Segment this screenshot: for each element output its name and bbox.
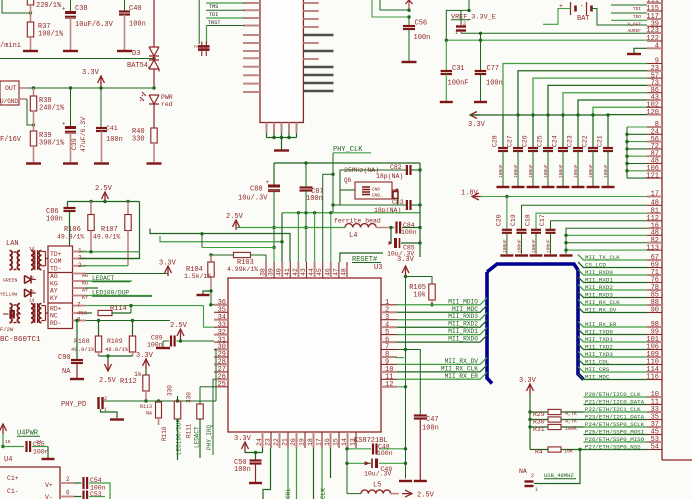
svg-text:AG: AG — [50, 273, 58, 280]
ground under 3.3V vertical — [405, 463, 407, 478]
svg-text:PHY_IRQ: PHY_IRQ — [206, 424, 213, 450]
svg-text:46: 46 — [324, 268, 331, 276]
wire P25/ETH/SSP0_MOSI — [584, 434, 648, 436]
svg-text:P24/ETH/SSP0_SCLK: P24/ETH/SSP0_SCLK — [585, 421, 645, 428]
junction USB riser — [578, 448, 581, 451]
svg-text:C28: C28 — [492, 135, 499, 147]
svg-text:C41: C41 — [106, 125, 118, 132]
junction C41/3.3V — [99, 86, 102, 89]
svg-text:C90: C90 — [58, 354, 71, 362]
svg-text:/mini: /mini — [0, 42, 21, 50]
junction R38/R39 — [32, 123, 35, 126]
svg-text:100nF: 100nF — [528, 164, 534, 178]
svg-text:MII_RXD2: MII_RXD2 — [448, 321, 478, 328]
svg-text:R112: R112 — [120, 378, 137, 386]
svg-text:10k: 10k — [413, 292, 426, 300]
inductor L4 — [345, 224, 376, 228]
wire pin16 down — [330, 448, 332, 478]
svg-text:1.8V: 1.8V — [461, 190, 479, 198]
wire MII_MDC — [578, 374, 647, 380]
junction C49 right — [404, 462, 407, 465]
ground under C40 — [117, 50, 132, 52]
wire TRST down — [206, 26, 208, 45]
svg-text:MII_RXD0: MII_RXD0 — [585, 269, 613, 276]
wire MII_TXD3 — [578, 352, 647, 358]
U1 pin stubs block2 — [647, 196, 662, 198]
svg-text:V_DAT: V_DAT — [627, 21, 641, 27]
wire C55 row — [3, 446, 24, 448]
wire P27/ETH/SSP0_NSS — [584, 449, 648, 451]
svg-text:C21: C21 — [597, 135, 604, 147]
svg-text:42: 42 — [292, 268, 299, 276]
resistor R112 1k — [143, 375, 149, 391]
svg-text:MII_RXD2: MII_RXD2 — [585, 284, 613, 291]
junction pin12 — [404, 385, 407, 388]
wire pin17 down — [321, 448, 323, 499]
svg-text:NA: NA — [146, 411, 152, 417]
ground under C50 — [249, 482, 262, 484]
wire MII_RXD3 — [578, 292, 647, 298]
svg-text:MII_RXD3: MII_RXD3 — [585, 291, 613, 298]
ground hook R104 — [203, 291, 211, 294]
svg-text:D3: D3 — [132, 50, 140, 58]
wire RD+ row — [86, 305, 204, 307]
svg-text:330: 330 — [167, 385, 174, 396]
capacitor C40 100n — [124, 0, 126, 12]
wire PHY_IRQ — [213, 379, 214, 455]
svg-text:MII_TXD0: MII_TXD0 — [585, 328, 613, 335]
svg-text:TDI: TDI — [633, 6, 641, 12]
solder jumper SJ2 — [198, 45, 210, 48]
svg-text:100k: 100k — [565, 426, 577, 432]
IC U3 box — [228, 278, 381, 432]
svg-text:NA: NA — [519, 468, 527, 475]
svg-text:BAT54: BAT54 — [127, 62, 148, 70]
wire nest pin46 — [330, 213, 332, 262]
capacitor C41 100n — [100, 88, 102, 128]
resistor R31 100k — [530, 426, 548, 428]
regulator OUT box — [0, 81, 19, 105]
wire TD- row — [81, 265, 129, 267]
wire 3.3V cap rail — [470, 114, 608, 116]
ground hook C55 — [47, 447, 49, 459]
wire P23/ETH/I2C1_DATA — [584, 419, 648, 421]
junction C87 bottom — [304, 226, 307, 229]
wire C56 outer L — [380, 0, 409, 10]
diode D3 — [153, 0, 155, 47]
resistor R106 49.9/1% — [90, 202, 92, 215]
svg-text:2.5V: 2.5V — [99, 377, 117, 385]
diode BAT54 schottky — [149, 60, 159, 72]
junction C88/pin39 — [272, 246, 275, 249]
wire row 81 — [536, 213, 647, 230]
wire 2.5V ferrite row — [236, 227, 345, 229]
crystal Q6 box — [355, 182, 392, 199]
svg-text:100n: 100n — [486, 80, 503, 88]
resistor R36 220/1% — [27, 0, 33, 5]
svg-text:C38: C38 — [75, 5, 88, 13]
capacitor C38 10uF/6.3V — [70, 0, 72, 12]
junction C89 right — [179, 339, 182, 342]
resistor R40 330 — [153, 104, 155, 128]
junction C56 outer — [407, 9, 410, 12]
svg-text:2: 2 — [463, 21, 466, 27]
capacitor bank C20-C17 — [506, 197, 508, 230]
resistor R104 1.5k/1% — [210, 255, 212, 262]
svg-text:F/16V: F/16V — [0, 136, 22, 144]
svg-text:R113: R113 — [140, 404, 152, 410]
ground hook C89 — [162, 341, 164, 347]
MII left labels and wires — [397, 298, 487, 305]
svg-text:C27: C27 — [507, 135, 514, 147]
svg-text:240/1%: 240/1% — [39, 105, 65, 113]
junction C50 top — [254, 451, 257, 454]
svg-text:R110: R110 — [161, 426, 168, 441]
junction R109 top — [131, 319, 134, 322]
U3 top pins — [265, 262, 267, 278]
svg-text:49.9/1%: 49.9/1% — [105, 346, 129, 353]
wire nest y247.5 — [201, 234, 203, 248]
capacitor C47 100n — [414, 414, 427, 416]
svg-text:MII_CRS: MII_CRS — [585, 366, 610, 373]
svg-text:100nF: 100nF — [543, 164, 549, 178]
wire MII_RX_CLK — [578, 300, 647, 306]
svg-text:C19: C19 — [510, 214, 517, 226]
svg-text:P25/ETH/SSP0_MOSI: P25/ETH/SSP0_MOSI — [585, 428, 644, 435]
svg-text:49.9/1%: 49.9/1% — [57, 234, 84, 241]
svg-text:1d: 1d — [29, 298, 35, 304]
svg-text:121: 121 — [646, 172, 659, 180]
svg-text:red: red — [161, 101, 173, 108]
capacitor bank C28-C21 — [502, 115, 504, 148]
svg-text:C77: C77 — [487, 65, 500, 73]
svg-text:18p(NA): 18p(NA) — [376, 173, 403, 180]
svg-text:LEDACT: LEDACT — [194, 426, 201, 448]
svg-text:10uF/6.3V: 10uF/6.3V — [75, 21, 114, 29]
junction R105/MDIO — [430, 303, 433, 306]
wire 3.3V to pin24 — [245, 451, 263, 454]
svg-text:TD-: TD- — [50, 266, 62, 273]
wire MII_RX_DV — [578, 307, 647, 313]
svg-text:2.5V: 2.5V — [95, 185, 113, 193]
ground under U5 — [274, 149, 289, 151]
junction pin7 — [404, 348, 407, 351]
svg-text:1: 1 — [455, 30, 458, 36]
junction C83 right — [418, 203, 421, 206]
wire pin14 to C49 row — [347, 447, 349, 450]
svg-text:2: 2 — [66, 476, 70, 483]
wire MII_RXD2 — [578, 285, 647, 291]
svg-text:100n: 100n — [234, 466, 251, 474]
svg-text:38: 38 — [260, 268, 267, 276]
svg-text:MII_RXD1: MII_RXD1 — [448, 328, 478, 335]
svg-text:2.5V: 2.5V — [417, 492, 435, 499]
svg-text:100n: 100n — [129, 21, 146, 29]
wire 3.3V to R105 — [405, 275, 407, 278]
svg-text:NC: NC — [50, 313, 58, 320]
svg-text:C22: C22 — [582, 135, 589, 147]
wire RD- row — [86, 320, 170, 322]
svg-text:17: 17 — [651, 191, 659, 199]
wire net to diodes y58 — [0, 58, 154, 60]
svg-text:AY: AY — [50, 288, 58, 295]
svg-text:25: 25 — [218, 381, 226, 389]
capacitor C88 10u/.3V — [273, 163, 275, 186]
svg-text:2.5V: 2.5V — [226, 213, 244, 221]
supply arrow U4PWR — [0, 424, 7, 431]
wire pin7 to C47 — [406, 350, 421, 416]
wire nest y233.5 — [150, 229, 290, 263]
wires staircase 3.3V cap rail — [503, 64, 647, 116]
svg-text:390/1%: 390/1% — [39, 140, 65, 148]
svg-text:MII_RX_ER: MII_RX_ER — [445, 373, 479, 380]
svg-text:14: 14 — [341, 438, 348, 446]
wire RESET — [340, 253, 383, 262]
capacitor LAN bottom — [9, 310, 11, 319]
wire MII_TXD2 — [578, 344, 647, 350]
svg-text:TDO: TDO — [633, 14, 641, 20]
pin TRST with wire — [243, 25, 260, 27]
svg-text:1: 1 — [535, 487, 538, 493]
junction crystal right — [396, 189, 399, 192]
wire battery right to V_DAT — [592, 9, 648, 26]
svg-text:V+: V+ — [45, 482, 53, 489]
svg-text:100n: 100n — [401, 229, 417, 236]
junction C90 top — [75, 319, 78, 322]
junction R103/R104 — [209, 253, 212, 256]
junction diodes — [152, 57, 155, 60]
wire pin18 down — [313, 448, 315, 499]
capacitor C50 100n — [255, 453, 257, 461]
svg-text:C24: C24 — [552, 135, 559, 147]
ground under C41 — [94, 162, 109, 164]
svg-text:4,7k: 4,7k — [565, 419, 577, 425]
svg-text:100n: 100n — [306, 195, 323, 203]
junction LED anode — [152, 86, 155, 89]
wire nest y241.8 — [160, 236, 282, 242]
wire crystal left pin — [340, 189, 355, 191]
svg-text:C56: C56 — [415, 20, 428, 28]
junction C48 left — [345, 447, 348, 450]
wire MII_CRS — [578, 367, 647, 373]
svg-text:3.3V: 3.3V — [468, 121, 486, 129]
svg-text:R111: R111 — [186, 423, 193, 438]
capacitor C82 18p — [340, 169, 406, 171]
junction R112 bottom — [144, 399, 147, 402]
svg-text:L4: L4 — [349, 232, 357, 240]
wire NC row with R114 — [86, 312, 92, 314]
capacitor C77 100n — [480, 33, 482, 71]
svg-text:18: 18 — [307, 438, 314, 446]
wire RD+ to pin33 — [204, 306, 215, 328]
wire KG LEDACT — [86, 280, 132, 282]
wire row 115 — [611, 12, 647, 14]
wire 2.5V rail — [68, 201, 140, 203]
junction bottom rail — [297, 211, 300, 214]
wire vertical 627 — [626, 127, 628, 178]
svg-text:LEDACT: LEDACT — [92, 275, 115, 282]
resistor R37 100/1% — [30, 5, 32, 13]
resistor R39 390/1% — [30, 131, 36, 146]
ground under R40 — [147, 162, 162, 164]
wire nest pin40 vertical — [281, 213, 283, 262]
svg-text:100n: 100n — [106, 136, 123, 144]
U3 bottom pins — [262, 432, 264, 448]
ground x566 — [560, 254, 573, 256]
svg-text:R4: R4 — [535, 449, 543, 456]
svg-text:23: 23 — [265, 438, 272, 446]
svg-text:C89: C89 — [151, 335, 163, 342]
svg-text:21: 21 — [282, 438, 289, 446]
wire MII_TXD1 — [578, 337, 647, 343]
junction C39 top — [69, 86, 72, 89]
capacitor C87 100n — [305, 163, 307, 188]
svg-text:330: 330 — [186, 392, 193, 403]
svg-text:10u/.3V: 10u/.3V — [387, 251, 414, 258]
svg-text:COL: COL — [285, 488, 292, 499]
svg-text:2.5V: 2.5V — [170, 322, 188, 330]
ground under C90 — [70, 378, 84, 380]
wire TD+ row — [81, 251, 141, 253]
junction C31 top — [445, 39, 448, 42]
wire C89 to pin31 — [177, 340, 215, 342]
svg-text:40: 40 — [276, 268, 283, 276]
svg-text:U3: U3 — [374, 264, 382, 272]
svg-text:CLK: CLK — [320, 488, 327, 499]
svg-text:100nF: 100nF — [588, 164, 594, 178]
resistor R103 4.99k/1% — [211, 254, 234, 256]
LAN pin box — [48, 246, 73, 329]
junction C77 top — [479, 39, 482, 42]
svg-text:100n: 100n — [33, 449, 49, 456]
wire MII_TXD0 — [578, 329, 647, 335]
svg-text:MII_RX_DV: MII_RX_DV — [585, 306, 617, 313]
junction C84 left — [389, 226, 392, 229]
junction R106 top — [89, 200, 92, 203]
svg-text:10u/.3V: 10u/.3V — [238, 195, 268, 203]
wire 3.3V to resistors — [529, 394, 531, 450]
svg-text:R114: R114 — [110, 305, 127, 313]
svg-text:MII_MDIO: MII_MDIO — [448, 298, 478, 305]
svg-text:GND_: GND_ — [372, 193, 383, 199]
svg-text:C55: C55 — [33, 441, 45, 448]
wire pin20 down — [296, 448, 298, 499]
junction C87 top — [304, 161, 307, 164]
svg-text:54: 54 — [651, 444, 659, 452]
wire y174 right — [323, 173, 333, 175]
wire battery left — [543, 9, 571, 25]
wire 3.3V rail y88 — [19, 87, 154, 89]
svg-text:3.3V: 3.3V — [82, 69, 100, 77]
svg-text:10u/.3V: 10u/.3V — [364, 471, 391, 478]
svg-text:41: 41 — [284, 268, 291, 276]
svg-text:100nF: 100nF — [603, 164, 609, 178]
svg-text:AUREF: AUREF — [627, 28, 641, 34]
capacitor C55 100n — [25, 441, 27, 452]
resistor R38 240/1% — [33, 88, 35, 96]
battery BAT — [570, 2, 572, 15]
resistor R105 10k — [429, 284, 435, 300]
svg-text:C54: C54 — [90, 477, 102, 484]
capacitor C90 NA — [76, 321, 78, 361]
svg-text:OUT: OUT — [5, 85, 17, 92]
svg-text:100nF: 100nF — [498, 164, 504, 178]
junction R114 riser — [129, 304, 132, 307]
gray pins of U5 — [303, 34, 333, 36]
svg-text:20: 20 — [290, 438, 297, 446]
wire nest pin45 — [322, 174, 324, 262]
wire USB_48MHZ — [534, 483, 545, 485]
svg-text:48: 48 — [651, 200, 659, 208]
svg-text:4.99k/1%: 4.99k/1% — [227, 266, 258, 273]
resistor R110 330 — [176, 399, 179, 402]
capacitor C85 10u/.3V — [394, 238, 397, 248]
junction arrow 2.5V — [103, 200, 106, 203]
supply 3.3V arrow mid-right — [470, 112, 477, 119]
wire to R36 — [2, 0, 31, 13]
junction C20 — [505, 195, 508, 198]
svg-text:100/1%: 100/1% — [38, 31, 64, 39]
svg-text:P27/ETH/SSP0_NSS: P27/ETH/SSP0_NSS — [585, 443, 641, 450]
svg-text:3.3V: 3.3V — [234, 435, 252, 443]
wire MII_RXD1 — [578, 277, 647, 283]
wire MII_COL — [578, 359, 647, 365]
junction R108 top — [97, 319, 100, 322]
wire row 17 1.8V — [480, 196, 647, 198]
junction U4PWR — [1, 445, 4, 448]
wire AG row 3.3V — [86, 273, 168, 275]
IC U5 JTAG box — [260, 0, 303, 123]
svg-text:+: + — [62, 121, 66, 128]
svg-text:1k: 1k — [134, 371, 142, 378]
supply 2.5V arrow down — [107, 356, 109, 361]
svg-text:F/2W: F/2W — [0, 326, 14, 333]
capacitor C31 100nF — [445, 40, 447, 71]
svg-text:GND: GND — [372, 187, 380, 193]
svg-text:MII_MDC: MII_MDC — [585, 373, 610, 380]
svg-text:C40: C40 — [129, 5, 142, 13]
resistor R108 49.9/1% — [98, 321, 100, 337]
wire MII_RXD0 — [578, 270, 647, 276]
capacitor C48 100n — [347, 448, 371, 450]
svg-text:220/1%: 220/1% — [36, 2, 62, 10]
svg-text:100nF: 100nF — [546, 239, 552, 253]
wire VREF top link — [446, 0, 469, 40]
wire PHY_CLK riser — [332, 153, 334, 213]
wire row 112 — [551, 221, 648, 230]
ground hook PHY_PD — [101, 409, 118, 418]
svg-text:LED100/DUP: LED100/DUP — [92, 289, 129, 296]
svg-text:100n: 100n — [46, 216, 63, 224]
supply 1.8V arrow — [472, 193, 479, 200]
svg-text:45: 45 — [316, 268, 323, 276]
svg-text:+: + — [266, 179, 270, 186]
svg-text:47: 47 — [332, 268, 339, 276]
svg-text:MII_RX_CLK: MII_RX_CLK — [441, 365, 478, 372]
ground under R37 — [23, 50, 38, 52]
svg-text:U/GND: U/GND — [0, 98, 18, 105]
wires rows 8-121 block — [627, 126, 647, 128]
junction R106 bottom — [89, 250, 92, 253]
svg-text:C53: C53 — [90, 491, 102, 498]
svg-text:BC-860TC1: BC-860TC1 — [0, 336, 41, 344]
wire pin7 stub — [397, 349, 406, 351]
pin TMS with wire — [243, 9, 260, 11]
wire R104 to pin36 — [211, 291, 214, 305]
resistor R29 4.7k — [530, 411, 548, 413]
svg-text:USB_48MHZ: USB_48MHZ — [544, 472, 574, 479]
svg-text:47uF/6.3V: 47uF/6.3V — [80, 117, 87, 152]
